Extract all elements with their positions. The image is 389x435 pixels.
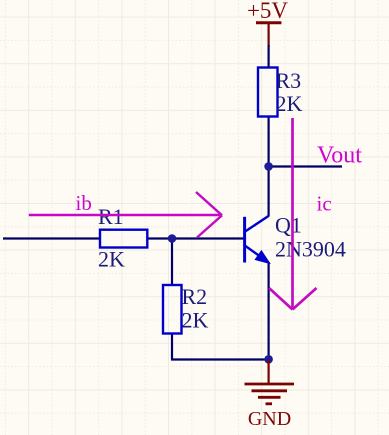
svg-text:ib: ib xyxy=(76,191,92,215)
svg-text:2K: 2K xyxy=(182,308,209,333)
svg-text:R2: R2 xyxy=(182,284,208,309)
svg-text:2K: 2K xyxy=(276,91,303,116)
svg-text:R1: R1 xyxy=(98,204,124,229)
svg-text:Vout: Vout xyxy=(317,143,362,169)
svg-text:2K: 2K xyxy=(98,246,125,271)
svg-text:Q1: Q1 xyxy=(275,213,302,238)
svg-text:GND: GND xyxy=(248,408,291,430)
svg-text:R3: R3 xyxy=(276,68,302,93)
svg-text:2N3904: 2N3904 xyxy=(275,237,346,262)
svg-text:ic: ic xyxy=(317,192,332,216)
svg-text:+5V: +5V xyxy=(247,0,288,23)
